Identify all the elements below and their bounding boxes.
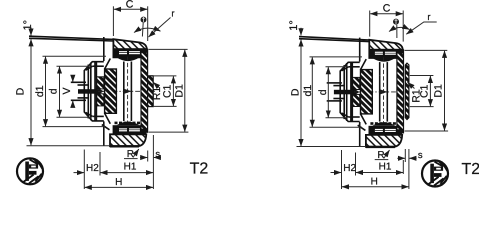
R leader <box>133 149 139 158</box>
s arrow right <box>154 157 161 159</box>
hub lower face line <box>103 121 105 145</box>
s left extension vertical right <box>404 149 406 162</box>
circle symbol stem right <box>396 25 398 38</box>
dimension d line <box>59 67 61 117</box>
C1 top extension right <box>410 75 434 77</box>
svg-text:R1: R1 <box>151 87 163 101</box>
thrust washer outer profile <box>84 62 104 121</box>
R leader right <box>384 150 390 159</box>
R1 leader arrow <box>153 82 159 87</box>
flange bottom cone edge <box>102 125 110 130</box>
H right extension vertical right <box>408 149 410 189</box>
svg-text:d: d <box>317 89 329 95</box>
svg-text:s: s <box>418 150 423 161</box>
outer ring bottom section <box>110 134 146 146</box>
svg-text:d1: d1 <box>302 85 314 97</box>
C1 bottom extension <box>154 105 177 107</box>
axial cage dome top <box>117 57 140 61</box>
cage slot top midline <box>119 52 140 54</box>
R1 leader arrow right <box>408 82 415 88</box>
circle symbol highlight right <box>395 19 398 24</box>
R underline <box>124 158 138 160</box>
H2 arrow outside left right <box>331 172 342 174</box>
swivel arc right <box>389 27 410 31</box>
D1 top extension right <box>405 49 448 51</box>
svg-text:d1: d1 <box>34 85 46 97</box>
s arrow left <box>140 157 147 159</box>
taper line upper right <box>299 37 369 40</box>
svg-text:D: D <box>289 88 301 96</box>
dimension D1 right <box>444 51 446 131</box>
grease hole wall right <box>130 62 132 122</box>
C1 bottom extension right <box>410 106 434 108</box>
cage slot bottom divider <box>127 128 129 132</box>
H dimension line right <box>342 186 409 188</box>
collar plate top cap <box>141 49 148 53</box>
grease hole wall left <box>123 62 125 76</box>
grease nipple shank line bottom <box>78 97 89 99</box>
grease nipple seat <box>107 89 110 95</box>
flange hatch block upper <box>97 77 104 89</box>
H1 dimension line <box>100 172 153 174</box>
taper line lower right <box>299 39 369 42</box>
hub top face edge <box>92 65 104 67</box>
V arrow top <box>72 75 74 82</box>
svg-text:H: H <box>371 176 378 187</box>
icon washer plate <box>25 162 29 181</box>
icon bar lower <box>29 171 37 175</box>
D bottom extension line <box>27 145 111 147</box>
svg-text:C: C <box>383 3 391 15</box>
grease nipple shank line top <box>78 84 89 86</box>
body right (reused) <box>327 38 404 147</box>
washer face line 2 <box>90 63 92 121</box>
icon right (reused) <box>422 161 448 187</box>
right thrust washer plate <box>405 63 409 119</box>
horizontal centerline <box>98 90 140 92</box>
s left extension vertical <box>147 151 149 162</box>
dimension D1 line <box>184 50 186 132</box>
cage slot bottom <box>119 128 141 132</box>
C left extension <box>112 6 114 36</box>
hub bottom face edge <box>92 115 104 117</box>
icon hatch upper right <box>30 159 43 169</box>
dimension d1 line <box>45 57 47 127</box>
H left extension vertical <box>83 150 85 190</box>
needle dash row bottom <box>115 122 141 125</box>
dimension C1 line <box>172 76 174 106</box>
H2 right extension vertical <box>99 152 101 176</box>
grease hole circle symbol <box>141 17 147 23</box>
svg-text:H: H <box>115 177 122 188</box>
svg-text:r: r <box>171 9 174 20</box>
icon left <box>17 158 43 184</box>
d bottom extension right <box>326 117 348 119</box>
D1 bottom extension <box>149 131 189 133</box>
svg-text:d: d <box>47 88 59 94</box>
flange cone slant bottom <box>86 112 93 116</box>
icon circle <box>17 158 43 184</box>
d1 top extension right <box>310 56 363 58</box>
grease nipple cone right <box>103 89 107 94</box>
d1 top extension <box>43 55 107 57</box>
r leader right horizontal <box>406 22 436 34</box>
H right extension vertical <box>152 135 154 189</box>
collar plate <box>141 49 148 132</box>
svg-text:1°: 1° <box>288 20 300 31</box>
inner ring chamfer bottom <box>105 113 111 124</box>
V arrow bottom <box>72 101 74 108</box>
dimension D line main with up and down arrows <box>30 39 32 145</box>
flange cone slant top <box>86 66 93 70</box>
d1 bottom extension <box>43 126 107 128</box>
d1 bottom extension right <box>310 126 363 128</box>
icon bar upper <box>29 164 38 168</box>
C left extension right <box>369 11 371 37</box>
outer ring bottom edge thick <box>110 145 139 147</box>
dimension C line <box>114 8 147 10</box>
H left extension vertical right <box>341 150 343 189</box>
taper line upper <box>29 36 113 39</box>
flange face vertical <box>95 62 97 121</box>
C right extension right <box>402 11 404 42</box>
circle symbol highlight <box>142 17 145 22</box>
D bottom extension right <box>297 146 367 148</box>
svg-text:H1: H1 <box>124 162 137 173</box>
svg-text:C: C <box>126 0 134 11</box>
svg-text:D: D <box>15 87 27 95</box>
grease nipple body <box>78 89 100 94</box>
flange hatch block lower <box>97 94 104 106</box>
svg-text:H2: H2 <box>86 163 99 174</box>
cage slot top divider <box>127 51 129 55</box>
washer face line 1 <box>87 65 89 119</box>
swivel arc <box>134 28 161 32</box>
svg-text:D1: D1 <box>432 84 444 98</box>
washer bore edge top <box>71 81 86 83</box>
s arrow right right <box>409 157 416 159</box>
cage slot top <box>119 51 141 55</box>
body left <box>71 37 148 146</box>
circle symbol stem <box>141 23 144 37</box>
H2 arrow outside left <box>74 172 85 174</box>
R underline right <box>375 159 389 161</box>
d top extension <box>57 65 92 67</box>
d bottom extension <box>57 116 92 118</box>
dimension d right <box>327 67 329 117</box>
H2 right extension vertical right <box>355 153 357 176</box>
svg-text:H1: H1 <box>379 161 392 172</box>
d top extension right <box>326 66 348 68</box>
C1 top extension <box>154 75 177 77</box>
svg-text:R1: R1 <box>410 89 422 103</box>
svg-text:1°: 1° <box>22 20 34 31</box>
outer ring top section <box>113 39 147 57</box>
washer face line 3 <box>94 62 96 121</box>
axial cage dome bottom <box>117 122 140 126</box>
outer ring top inner black band <box>113 48 147 57</box>
inner ring chamfer top <box>105 59 111 70</box>
taper line lower <box>29 38 113 41</box>
grease hole wall left thin <box>123 75 125 121</box>
H1 dimension line right <box>356 172 403 174</box>
D1 top extension <box>149 48 188 50</box>
grease hole circle symbol right <box>393 19 399 25</box>
collar plate bottom cap <box>141 129 148 133</box>
svg-text:H2: H2 <box>343 163 356 174</box>
grease nipple cone left <box>100 89 104 94</box>
svg-text:D1: D1 <box>173 84 185 98</box>
inner ring bore hatch band <box>105 69 117 113</box>
dimension D line upper segment with down arrow <box>30 28 32 36</box>
D1 bottom extension right <box>405 130 449 132</box>
H1 right extension vertical right <box>402 160 404 174</box>
dimension D right upper segment <box>300 28 302 36</box>
outer ring bottom inner black band <box>113 125 147 134</box>
svg-text:s: s <box>155 149 160 160</box>
cage slot bottom midline <box>119 129 140 131</box>
svg-text:T2: T2 <box>190 160 209 177</box>
icon bar upper slot <box>31 166 36 168</box>
icon hatch lower <box>24 174 42 184</box>
svg-text:V: V <box>61 87 73 94</box>
grease hole hidden centerline <box>127 57 129 127</box>
s arrow left right <box>397 157 405 159</box>
centerline arrow <box>126 90 131 92</box>
hub upper face line <box>103 37 105 61</box>
washer bore edge bottom <box>71 99 86 101</box>
dimension d1 right <box>311 57 313 127</box>
dimension C1 right <box>429 76 431 107</box>
H dimension line <box>85 186 154 188</box>
collar hub left <box>148 76 154 107</box>
dimension D right main <box>300 39 302 146</box>
svg-text:T2: T2 <box>461 161 479 178</box>
C right extension <box>147 6 149 41</box>
dimension C right <box>370 13 403 15</box>
r leader <box>149 18 171 38</box>
